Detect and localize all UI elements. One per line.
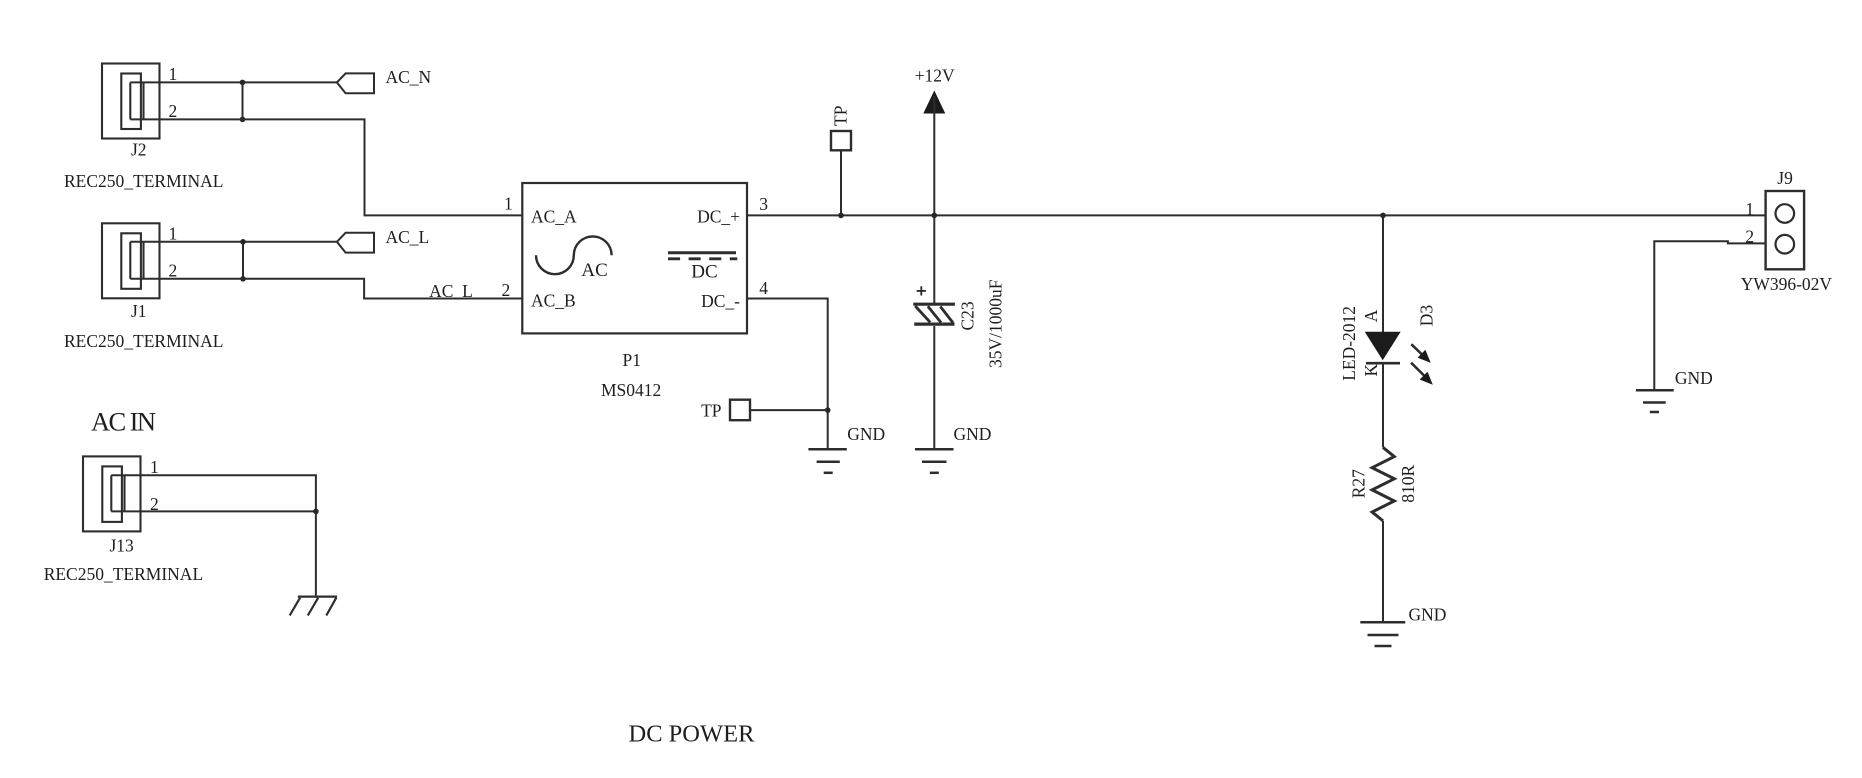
junction dot LED branch xyxy=(1380,213,1386,219)
junction dot xyxy=(932,213,938,219)
capacitor C23 plates xyxy=(913,304,955,324)
svg-text:DC_-: DC_- xyxy=(701,291,740,311)
svg-text:35V/1000uF: 35V/1000uF xyxy=(986,279,1006,368)
wire J1 pin2 to P1 AC_B xyxy=(130,279,523,299)
svg-text:J2: J2 xyxy=(131,140,147,160)
svg-text:DC_+: DC_+ xyxy=(697,206,740,226)
wire TP to rail xyxy=(840,150,842,215)
J9 pin2 circle xyxy=(1776,235,1795,254)
connector J13 xyxy=(83,456,141,531)
ground symbol (J9) xyxy=(1636,390,1674,412)
wire J2 pin1-pin2 vertical link xyxy=(242,82,244,119)
P1 DC symbol dashed line xyxy=(668,257,737,260)
svg-text:D3: D3 xyxy=(1417,305,1437,327)
net flag AC_L xyxy=(337,233,374,253)
P1 DC symbol solid line xyxy=(668,251,736,254)
junction dot xyxy=(240,80,246,86)
svg-text:J13: J13 xyxy=(110,536,135,556)
wire R27 to GND xyxy=(1382,521,1384,622)
wire C23 to GND xyxy=(933,326,935,449)
wire rail to C23 xyxy=(933,215,935,304)
svg-text:TP: TP xyxy=(831,105,851,126)
label C23 plus xyxy=(917,286,926,295)
power +12V arrow xyxy=(923,91,945,114)
svg-text:A: A xyxy=(1361,309,1381,322)
wire J1 pin1-pin2 vertical link xyxy=(242,242,244,279)
svg-text:C23: C23 xyxy=(958,301,978,330)
capacitor C23 hatch xyxy=(915,306,953,323)
svg-text:K: K xyxy=(1361,364,1381,377)
svg-text:AC_B: AC_B xyxy=(531,291,576,311)
connector J1 xyxy=(102,223,160,298)
svg-text:1: 1 xyxy=(169,224,178,244)
svg-text:2: 2 xyxy=(169,261,178,281)
J9 pin1 circle xyxy=(1776,204,1795,223)
svg-text:2: 2 xyxy=(1745,226,1754,246)
svg-text:MS0412: MS0412 xyxy=(601,380,661,400)
wire P1 DC_+ pin3 to main rail xyxy=(747,214,1766,216)
ground symbol (DC_-) xyxy=(808,449,846,473)
svg-text:810R: 810R xyxy=(1398,464,1418,502)
svg-text:P1: P1 xyxy=(623,350,641,370)
svg-text:2: 2 xyxy=(169,101,178,121)
connector J9 box xyxy=(1766,191,1805,269)
junction dot xyxy=(838,213,844,219)
svg-text:AC_L: AC_L xyxy=(386,227,430,247)
test point TP (top) square xyxy=(831,131,851,150)
net flag AC_N xyxy=(337,73,374,93)
wire J13 pin1 xyxy=(111,475,316,511)
junction dot xyxy=(240,117,246,123)
svg-text:1: 1 xyxy=(169,64,178,84)
wire TP to DC_- net xyxy=(750,409,828,411)
svg-text:GND: GND xyxy=(954,424,992,444)
svg-text:3: 3 xyxy=(759,194,768,214)
svg-text:1: 1 xyxy=(150,457,159,477)
svg-text:2: 2 xyxy=(150,494,159,514)
wire J1 pin1 to flag xyxy=(130,241,337,243)
svg-text:4: 4 xyxy=(759,278,768,298)
svg-text:REC250_TERMINAL: REC250_TERMINAL xyxy=(64,331,223,351)
chassis ground xyxy=(290,597,337,616)
junction dot xyxy=(240,239,246,245)
LED cathode bar xyxy=(1366,362,1400,365)
resistor R27 zigzag xyxy=(1372,447,1394,521)
svg-text:AC: AC xyxy=(581,260,607,281)
connector J2 xyxy=(102,64,160,139)
wire J2 pin2 to P1 AC_A xyxy=(130,119,523,215)
svg-text:DC POWER: DC POWER xyxy=(629,721,756,748)
junction dot xyxy=(825,407,831,413)
junction dot xyxy=(313,509,319,515)
svg-text:TP: TP xyxy=(701,401,722,421)
svg-text:REC250_TERMINAL: REC250_TERMINAL xyxy=(64,171,223,191)
svg-text:DC: DC xyxy=(691,262,717,283)
wire J9 pin2 to GND xyxy=(1654,241,1765,390)
svg-text:2: 2 xyxy=(502,280,511,300)
svg-text:J9: J9 xyxy=(1777,168,1793,188)
svg-text:YW396-02V: YW396-02V xyxy=(1741,274,1833,294)
ground symbol (R27) xyxy=(1360,622,1405,646)
svg-text:AC_A: AC_A xyxy=(531,206,577,226)
svg-text:AC IN: AC IN xyxy=(91,407,156,437)
wire J13 to chassis ground xyxy=(315,511,317,596)
svg-text:LED-2012: LED-2012 xyxy=(1339,306,1359,381)
LED light arrow 2 xyxy=(1411,363,1424,376)
module P1 box xyxy=(522,183,747,333)
wire J13 pin2 xyxy=(111,510,317,512)
wire rail to LED anode xyxy=(1382,215,1384,332)
svg-text:R27: R27 xyxy=(1349,469,1369,498)
svg-text:J1: J1 xyxy=(131,301,147,321)
svg-text:AC_N: AC_N xyxy=(386,67,432,87)
LED D3 triangle xyxy=(1365,332,1401,361)
ground symbol (C23) xyxy=(915,449,954,473)
LED light arrow 1 xyxy=(1411,344,1422,354)
wire J2 pin1 to flag xyxy=(130,81,337,83)
test point TP (bottom) square xyxy=(730,400,750,421)
wire P1 DC_- pin4 down xyxy=(747,299,828,450)
svg-text:+12V: +12V xyxy=(915,66,955,86)
wire +12V to rail xyxy=(933,96,935,215)
svg-text:REC250_TERMINAL: REC250_TERMINAL xyxy=(44,564,203,584)
svg-text:1: 1 xyxy=(1745,199,1754,219)
svg-text:GND: GND xyxy=(1409,605,1447,625)
svg-text:GND: GND xyxy=(1675,368,1713,388)
svg-text:GND: GND xyxy=(847,424,885,444)
svg-text:1: 1 xyxy=(504,193,513,213)
junction dot xyxy=(240,276,246,282)
svg-text:AC_L: AC_L xyxy=(429,281,473,301)
wire LED cathode to R27 xyxy=(1382,363,1384,447)
P1 AC sine symbol xyxy=(536,236,612,274)
